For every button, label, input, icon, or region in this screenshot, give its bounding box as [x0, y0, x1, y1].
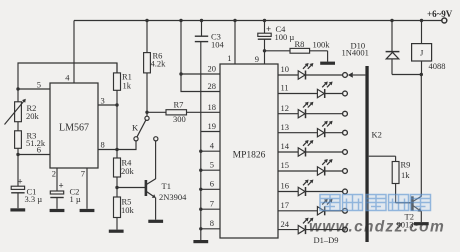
wire pin 15 row	[278, 170, 343, 172]
wire pin 5 to ground bus	[199, 169, 220, 172]
node coil-collector junction	[420, 73, 423, 76]
LED D6	[317, 159, 332, 176]
LED D8	[317, 199, 332, 216]
LED D1	[298, 63, 313, 80]
svg-text:20k: 20k	[26, 111, 40, 121]
pin 6 label	[37, 145, 41, 155]
pin 15 label	[281, 160, 290, 170]
transistor T1 2N3904	[117, 141, 187, 220]
svg-text:11: 11	[281, 83, 289, 93]
terminal contact row 12	[343, 111, 348, 116]
LED D3	[298, 102, 313, 119]
svg-text:R7: R7	[174, 99, 184, 109]
node pin6 junction	[16, 153, 19, 156]
wire pin19 to ground bus	[201, 131, 220, 133]
wire LM567 pin3	[98, 104, 117, 106]
ground C1	[10, 208, 25, 211]
resistor R9 1k	[369, 156, 412, 203]
svg-text:6: 6	[210, 179, 214, 189]
pin 17 label	[281, 200, 290, 210]
node rail pin28	[179, 19, 182, 22]
wire LM567 pin8 to switch contact	[98, 141, 136, 150]
svg-text:17: 17	[281, 200, 290, 210]
svg-text:15: 15	[281, 160, 290, 170]
pin 19 label	[208, 121, 217, 131]
LED D7	[298, 180, 313, 197]
terminal contact row 24	[343, 227, 348, 232]
svg-text:4: 4	[65, 73, 70, 83]
LED D4	[317, 121, 332, 138]
ground T2 emitter	[414, 222, 429, 225]
wire pin 24 row	[278, 229, 343, 231]
wire pin 7 to ground bus	[199, 208, 220, 211]
svg-text:8: 8	[210, 218, 214, 228]
terminal contact row 17	[343, 208, 348, 213]
svg-text:3.3 µ: 3.3 µ	[25, 194, 43, 204]
node rail-R6 junction	[145, 19, 148, 22]
pin 20 label	[208, 64, 217, 74]
terminal contact row 13	[343, 130, 348, 135]
wire pin 17 row	[278, 210, 343, 212]
resistor R7 300	[147, 99, 220, 124]
wire pin 16 row	[278, 191, 343, 193]
pin 7 label	[81, 169, 85, 179]
node R4-R5-base junction	[115, 186, 118, 189]
wire pin1 to rail	[234, 21, 236, 65]
node rail C3	[200, 19, 203, 22]
pin 8 label	[101, 140, 105, 150]
pin 28 label	[208, 81, 217, 91]
wire LM567 pin6	[18, 154, 50, 156]
capacitor C2 1u	[50, 180, 81, 209]
wire pin 10 row	[278, 74, 343, 76]
diode D10 1N4001	[342, 21, 400, 75]
svg-text:100 µ: 100 µ	[275, 32, 295, 42]
label D1-D9	[314, 235, 339, 245]
svg-text:T1: T1	[162, 181, 171, 191]
wire R6 vertical from rail	[146, 21, 148, 117]
svg-text:10k: 10k	[121, 205, 135, 215]
svg-text:20: 20	[208, 64, 217, 74]
ground C2	[50, 209, 65, 212]
terminal contact row 10	[343, 73, 348, 78]
node rail relay J	[420, 19, 423, 22]
svg-text:7: 7	[210, 199, 214, 209]
capacitor C4 100u	[258, 21, 295, 65]
svg-text:+6~9V: +6~9V	[427, 9, 453, 19]
pin 3 label	[101, 96, 105, 106]
svg-text:104: 104	[211, 39, 225, 49]
resistor R3 51.2k	[15, 130, 46, 148]
wire pin 8 to ground bus	[199, 227, 220, 230]
svg-text:1k: 1k	[123, 81, 132, 91]
wire C3 to ground bus	[200, 42, 202, 240]
wire LM567 pin2	[56, 168, 58, 191]
svg-text:1: 1	[227, 53, 231, 63]
switch K	[132, 116, 158, 141]
terminal +6~9V	[427, 9, 453, 23]
node C4-R8-pin9	[263, 49, 266, 52]
op-amp U LM567	[50, 83, 98, 168]
svg-text:4.2k: 4.2k	[151, 58, 167, 68]
pin 13 label	[281, 122, 290, 132]
svg-text:300: 300	[173, 114, 186, 124]
pin 7 label	[210, 199, 214, 209]
ground T1 emitter	[148, 220, 163, 223]
svg-text:2N3904: 2N3904	[159, 192, 187, 202]
svg-text:2: 2	[52, 169, 56, 179]
pin 14 label	[281, 141, 290, 151]
ground R8	[320, 62, 335, 65]
wire horizontal pin5 feed / R1 top	[18, 63, 117, 89]
svg-text:www.cndzz.com: www.cndzz.com	[309, 219, 445, 236]
pin 6 label	[210, 179, 214, 189]
node pin8 junction	[115, 148, 118, 151]
node rail C4	[263, 19, 266, 22]
relay contact bar K2	[365, 66, 381, 242]
IC MP1826	[220, 64, 278, 238]
terminal contact row 16	[343, 189, 348, 194]
resistor R4 20k	[114, 158, 135, 178]
pin 9 label	[255, 54, 259, 64]
pin 4 label	[65, 73, 70, 83]
svg-text:14: 14	[281, 141, 290, 151]
terminal contact row 14	[343, 150, 348, 155]
svg-text:5: 5	[210, 160, 214, 170]
svg-text:1 µ: 1 µ	[70, 194, 81, 204]
svg-text:100k: 100k	[313, 40, 331, 50]
wire left chain R2 R3 to C1	[17, 89, 19, 187]
relay moving contact arrow row 10	[348, 72, 366, 77]
pin 24 label	[281, 219, 290, 229]
resistor R6 4.2k	[144, 51, 167, 73]
svg-text:9: 9	[255, 54, 259, 64]
svg-text:+: +	[18, 177, 23, 187]
svg-text:D1–D9: D1–D9	[314, 235, 339, 245]
wire R1-R4 vertical bus	[116, 63, 118, 230]
resistor R8 100k	[265, 39, 331, 62]
node rail pin1	[233, 19, 236, 22]
pin 1 label	[227, 53, 231, 63]
svg-text:6: 6	[37, 145, 41, 155]
terminal contact row 11	[343, 91, 348, 96]
svg-text:1N4001: 1N4001	[342, 47, 369, 57]
capacitor C1 3.3u	[11, 177, 42, 209]
svg-text:24: 24	[281, 219, 290, 229]
svg-text:20k: 20k	[121, 166, 135, 176]
svg-text:R8: R8	[295, 39, 305, 49]
wire pin 12 row	[278, 113, 343, 115]
resistor R2 (variable) 20k	[5, 99, 40, 125]
LED D5	[298, 140, 313, 157]
svg-text:1k: 1k	[401, 170, 410, 180]
node R6-R7-K junction	[145, 111, 148, 114]
pin 12 label	[281, 103, 290, 113]
pin 10 label	[281, 64, 290, 74]
ground pin7	[80, 209, 95, 212]
pin 2 label	[52, 169, 56, 179]
relay coil J 4088	[412, 21, 446, 75]
LED D2	[317, 82, 332, 99]
svg-text:8: 8	[101, 140, 105, 150]
wire pin 4 to ground bus	[199, 150, 220, 153]
svg-text:19: 19	[208, 121, 217, 131]
ground R5	[109, 230, 124, 233]
wire pin 6 to ground bus	[199, 188, 220, 191]
svg-text:18: 18	[208, 102, 217, 112]
ground pin bus	[193, 240, 208, 243]
node pin20 junction	[179, 72, 182, 75]
svg-text:28: 28	[208, 81, 217, 91]
svg-text:7: 7	[81, 169, 85, 179]
capacitor C3 104	[195, 21, 225, 50]
resistor R1 1k	[114, 72, 132, 91]
svg-text:10: 10	[281, 64, 290, 74]
pin 4 label	[210, 141, 215, 151]
svg-text:13: 13	[281, 122, 290, 132]
transistor T2 9013	[397, 75, 422, 230]
resistor R5 10k	[114, 197, 135, 218]
svg-text:4: 4	[210, 141, 215, 151]
wire D10 to relay bottom	[392, 74, 421, 76]
wire LM567 pin4 to rail	[73, 21, 75, 84]
wire LM567 pin5	[18, 88, 50, 90]
svg-text:16: 16	[281, 181, 290, 191]
svg-text:3: 3	[101, 96, 105, 106]
pin 8 label	[210, 218, 214, 228]
wire pin 13 row	[278, 132, 343, 134]
LED D9	[298, 218, 313, 235]
svg-text:4088: 4088	[429, 61, 446, 71]
svg-text:+: +	[59, 180, 64, 190]
wire rail to pin20 pin28	[181, 21, 220, 92]
wire pin 14 row	[278, 151, 343, 153]
pin 18 label	[208, 102, 217, 112]
wire LM567 pin7	[86, 168, 88, 209]
pin 5 label	[210, 160, 214, 170]
pin 11 label	[281, 83, 289, 93]
svg-text:MP1826: MP1826	[233, 151, 266, 161]
pin 16 label	[281, 181, 290, 191]
svg-text:5: 5	[37, 80, 41, 90]
wire pin 11 row	[278, 93, 343, 95]
wire top supply rail	[74, 20, 442, 22]
watermark	[309, 195, 445, 236]
node pin5 junction	[16, 87, 19, 90]
node rail D10	[390, 19, 393, 22]
node pin3 junction	[115, 103, 118, 106]
terminal contact row 15	[343, 169, 348, 174]
pin 5 label	[37, 80, 41, 90]
svg-text:K2: K2	[372, 130, 382, 140]
svg-text:LM567: LM567	[59, 123, 89, 134]
svg-text:R9: R9	[401, 160, 411, 170]
svg-text:K: K	[132, 123, 139, 133]
svg-text:+: +	[266, 24, 271, 34]
svg-text:12: 12	[281, 103, 290, 113]
